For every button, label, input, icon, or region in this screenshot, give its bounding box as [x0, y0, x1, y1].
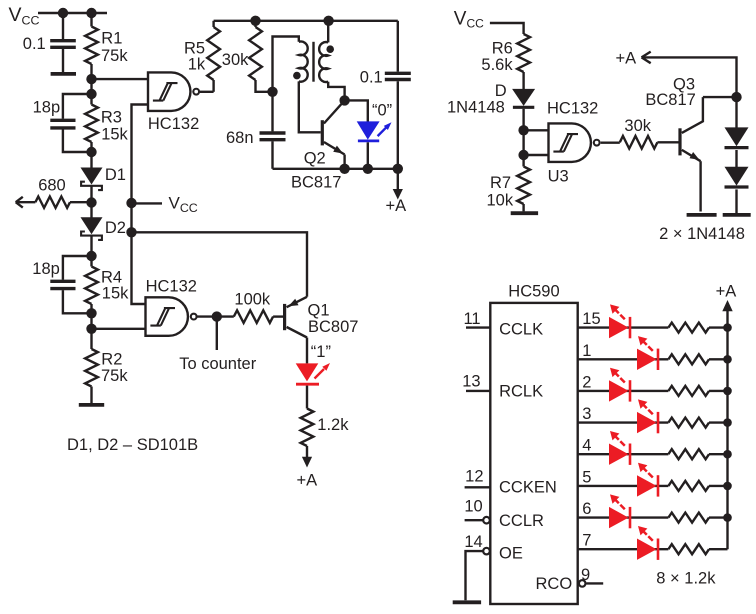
wire R2-gnd [90, 387, 92, 404]
value 10k [487, 191, 514, 209]
svg-text:1.2k: 1.2k [317, 416, 349, 434]
value label 30k osc [222, 51, 249, 69]
wire 100k to base [273, 315, 283, 317]
ground R7 [511, 211, 538, 215]
wire +A rail [726, 308, 728, 549]
diode clamp 2 [725, 167, 749, 187]
value label 680 [38, 177, 66, 195]
pin label 2 [582, 373, 591, 391]
node rail row 3 [723, 418, 732, 427]
value label 0.1 out [360, 69, 383, 87]
node gate2 input tap [86, 324, 96, 334]
pin 10 CCLR stub [465, 517, 490, 524]
svg-text:BC807: BC807 [308, 318, 358, 336]
pin label 7 [582, 532, 591, 550]
svg-text:1N4148: 1N4148 [447, 98, 505, 116]
wire Vcc rail [38, 12, 107, 14]
diode D2 Schottky [81, 217, 103, 240]
node 18p tap [86, 89, 96, 99]
svg-text:7: 7 [582, 532, 591, 550]
node LED0 rail [363, 164, 373, 174]
value label 18p lower [32, 260, 60, 278]
svg-text:+A: +A [297, 472, 318, 490]
svg-text:100k: 100k [234, 291, 271, 309]
pin name CCKEN [499, 479, 557, 497]
pin label 1 [582, 342, 591, 360]
wire +A feed [643, 57, 737, 97]
wire Vcc mid [132, 202, 163, 204]
svg-text:680: 680 [38, 177, 66, 195]
value label 0.1 [23, 35, 46, 53]
LED row 5 [637, 463, 658, 497]
svg-text:R6: R6 [492, 39, 513, 57]
wire 68n top [271, 92, 273, 132]
wire primary top [273, 37, 299, 92]
svg-text:D1: D1 [105, 166, 126, 184]
ground R2 [79, 403, 104, 407]
svg-text:0.1: 0.1 [360, 69, 383, 87]
svg-text:OE: OE [499, 545, 523, 563]
wire C3 bottom [63, 290, 92, 313]
wire D to R7 [522, 109, 524, 167]
label HC132 B [146, 278, 197, 296]
svg-text:9: 9 [581, 566, 590, 584]
svg-text:R5: R5 [184, 39, 205, 57]
pin 13 RCLK stub [466, 390, 490, 392]
wire R4-R2 [90, 304, 92, 349]
label R3 [101, 109, 122, 127]
svg-text:To counter: To counter [179, 355, 257, 373]
wire R6-D [522, 72, 524, 89]
wire U3 in B [524, 154, 549, 156]
wire 30k to Q3 base [657, 141, 678, 143]
label R4 [101, 268, 122, 286]
svg-text:2: 2 [582, 373, 591, 391]
LED D-0 blue [357, 121, 392, 140]
node rail row 6 [723, 513, 732, 522]
value 15k lower [102, 285, 129, 303]
value 15k [101, 126, 128, 144]
LED D-1 red [296, 363, 330, 384]
svg-text:+A: +A [716, 283, 737, 301]
node Vcc-C1 [58, 8, 68, 18]
pin name RCLK [499, 382, 543, 400]
label R7 [490, 174, 511, 192]
op-amp gate HC132 A [148, 72, 199, 111]
resistor row 7 [668, 544, 709, 554]
pin 6 wire [578, 516, 728, 518]
wire LED1 to R [306, 386, 308, 409]
diode D1 Schottky [81, 168, 103, 191]
label BC817 Q2 [291, 174, 341, 192]
label Q1 [308, 301, 330, 319]
resistor R2 [85, 349, 98, 387]
label R2 [101, 351, 122, 369]
svg-text:RCLK: RCLK [499, 382, 543, 400]
ground Q3 emitter [687, 213, 717, 217]
pin label 3 [582, 405, 591, 423]
label HC132 A [148, 115, 199, 133]
wire Vcc right [490, 23, 524, 34]
resistor R5 [207, 21, 220, 92]
pin label 13 [462, 373, 480, 391]
LED row 3 [637, 399, 658, 433]
wire to diode1 [735, 97, 737, 128]
svg-text:15k: 15k [101, 126, 128, 144]
value 1k [188, 56, 206, 74]
svg-text:Q1: Q1 [308, 301, 330, 319]
svg-text:CCKEN: CCKEN [499, 479, 557, 497]
node R3-D1 junction [86, 147, 96, 157]
svg-text:15k: 15k [102, 285, 129, 303]
svg-text:RCO: RCO [536, 575, 573, 593]
op-amp gate HC132 B [146, 297, 197, 336]
ground OE [453, 600, 481, 604]
svg-text:6: 6 [582, 500, 591, 518]
wire primary to Q2 base [299, 81, 321, 132]
svg-text:18p: 18p [32, 260, 60, 278]
svg-text:R4: R4 [101, 268, 122, 286]
node D2 branch [126, 227, 136, 237]
value 2x1N4148 [659, 225, 745, 243]
wire counter stub [216, 317, 218, 350]
pin 7 wire [578, 548, 728, 550]
svg-text:Q2: Q2 [304, 150, 326, 168]
pin 11 CCLK stub [466, 326, 490, 328]
svg-text:HC132: HC132 [146, 278, 197, 296]
ground C1 [51, 72, 76, 76]
svg-text:“0”: “0” [372, 102, 392, 120]
svg-text:4: 4 [582, 437, 591, 455]
note D1 D2 type [67, 436, 198, 454]
pin 14 OE stub [466, 548, 490, 601]
svg-text:HC132: HC132 [547, 100, 598, 118]
LED row 2 [609, 368, 630, 402]
wire gate1 output [200, 91, 214, 93]
op-amp gate HC132 U3 [549, 123, 600, 161]
resistor row 1 [668, 354, 709, 364]
node top rail T1 [323, 16, 333, 26]
resistor row 5 [668, 481, 709, 491]
resistor 1.2k [301, 409, 314, 447]
node Vcc-R1 [86, 8, 96, 18]
pin label 10 [464, 498, 482, 516]
pin name CCLK [499, 320, 543, 338]
pin label 5 [582, 468, 591, 486]
svg-text:CCLR: CCLR [499, 512, 544, 530]
svg-text:11: 11 [463, 310, 480, 328]
LED row 4 [609, 431, 630, 465]
transformer T1 secondary [319, 21, 344, 101]
pin name CCLR [499, 512, 544, 530]
LED row 15 [609, 304, 630, 338]
svg-text:8 × 1.2k: 8 × 1.2k [656, 569, 716, 587]
IC U-HC590 body [490, 303, 577, 604]
arrow +A rail [722, 300, 732, 311]
svg-text:18p: 18p [33, 98, 61, 116]
transistor Q3 [680, 97, 703, 211]
node rail row 2 [723, 387, 732, 396]
resistor 30k osc [249, 21, 272, 92]
ground diode string [723, 213, 751, 217]
svg-text:3: 3 [582, 405, 591, 423]
wire C1 top lead [62, 13, 64, 39]
node counter tap [212, 311, 222, 321]
wire D2-R4 [90, 236, 92, 267]
wire R1 top lead [90, 13, 92, 27]
value 1N4148 [447, 98, 505, 116]
node Q2 collector junction [339, 95, 349, 105]
svg-text:D: D [495, 82, 507, 100]
svg-text:30k: 30k [624, 117, 651, 135]
label +A rail [716, 283, 737, 301]
arrow +A out [393, 169, 403, 200]
svg-text:1k: 1k [188, 56, 206, 74]
node rail row 4 [723, 450, 732, 459]
svg-text:0.1: 0.1 [23, 35, 46, 53]
node diode string top [731, 92, 741, 102]
pin label 14 [464, 533, 482, 551]
pin 5 wire [578, 485, 728, 487]
svg-text:BC817: BC817 [291, 174, 341, 192]
LED row 6 [609, 494, 630, 528]
node Q2 emitter rail [339, 164, 349, 174]
label Q3 [673, 76, 695, 94]
value 5.6k [481, 56, 513, 74]
resistor 100k [234, 310, 273, 323]
label R1 [101, 30, 122, 48]
pin label 6 [582, 500, 591, 518]
svg-text:5: 5 [582, 468, 591, 486]
wire top rail [214, 20, 398, 22]
pin 12 CCKEN stub [465, 486, 491, 488]
arrow to supply (680) [16, 197, 36, 208]
value 75k [101, 47, 128, 65]
label HC590 [508, 282, 559, 300]
pin label 11 [463, 310, 480, 328]
wire C2 bottom [63, 129, 92, 152]
wire R7 gnd [522, 204, 524, 211]
wire U3 in A [524, 129, 549, 131]
resistor row 6 [668, 513, 709, 523]
label D [495, 82, 507, 100]
wire gate2 output [197, 315, 234, 317]
label U3 [548, 167, 569, 185]
svg-text:10k: 10k [487, 191, 514, 209]
label HC132 U3 [547, 100, 598, 118]
node D2-R4 junction [86, 251, 96, 261]
svg-text:30k: 30k [222, 51, 249, 69]
resistor row 3 [668, 418, 709, 428]
wire R1-R3 [90, 64, 92, 105]
label R5 [184, 39, 205, 57]
svg-text:+A: +A [616, 50, 637, 68]
wire C3 top [63, 256, 92, 280]
capacitor 0.1 bypass [50, 41, 76, 48]
svg-text:+A: +A [386, 197, 407, 215]
pin label 15 [582, 310, 600, 328]
svg-text:CCLK: CCLK [499, 320, 543, 338]
svg-text:12: 12 [465, 468, 483, 486]
pin 1 wire [578, 358, 728, 360]
label +A out [386, 197, 407, 215]
arrow +A feed head [642, 52, 651, 64]
wire bottom rail [273, 168, 398, 170]
pin label 4 [582, 437, 591, 455]
label R6 [492, 39, 513, 57]
diode D 1N4148 [512, 89, 535, 107]
node rail +A [393, 164, 403, 174]
pin 2 wire [578, 390, 728, 392]
node rail row 1 [723, 355, 732, 364]
node R1-R3 junction [86, 74, 96, 84]
wire gate1 input B vertical [132, 105, 150, 305]
wire diode2 gnd [735, 189, 737, 213]
pin name OE [499, 545, 523, 563]
resistor row 15 [668, 323, 709, 333]
wire to gate1 input A [92, 78, 150, 80]
resistor R6 [517, 34, 530, 72]
svg-text:BC817: BC817 [645, 91, 695, 109]
svg-text:5.6k: 5.6k [481, 56, 513, 74]
pin label 9 [581, 566, 590, 584]
capacitor 18p upper [50, 120, 75, 128]
resistor row 2 [668, 386, 709, 396]
svg-text:U3: U3 [548, 167, 569, 185]
capacitor 18p lower [50, 281, 75, 288]
label To counter [179, 355, 257, 373]
svg-text:R7: R7 [490, 174, 511, 192]
svg-text:HC590: HC590 [508, 282, 559, 300]
value label 68n [226, 129, 254, 147]
transformer T1 primary [293, 42, 308, 82]
wire LED0 bottom [367, 142, 369, 169]
wire C2 top [63, 94, 92, 119]
LED row 7 [637, 526, 658, 560]
svg-text:1: 1 [582, 342, 591, 360]
svg-text:R3: R3 [101, 109, 122, 127]
value label 1.2k [317, 416, 349, 434]
node U3 input B [518, 150, 528, 160]
pin 3 wire [578, 421, 728, 423]
wire D1-D2 [90, 186, 92, 218]
power label Vcc [9, 4, 40, 27]
power label Vcc right [454, 9, 484, 31]
wire right rail top [397, 21, 399, 72]
node R4-C3 junction [86, 308, 96, 318]
value label 100k [234, 291, 271, 309]
svg-text:75k: 75k [101, 47, 128, 65]
capacitor 68n [260, 133, 286, 140]
LED row 1 [637, 336, 658, 370]
svg-text:D1, D2 – SD101B: D1, D2 – SD101B [67, 436, 198, 454]
value 8x1.2k [656, 569, 716, 587]
node 68n junction [267, 87, 277, 97]
label BC817 Q3 [645, 91, 695, 109]
label Q2 [304, 150, 326, 168]
label +A bottom [297, 472, 318, 490]
resistor R4 [85, 267, 98, 305]
pin 9 RCO stub [579, 580, 603, 587]
wire diode1-2 [735, 150, 737, 167]
svg-text:R1: R1 [101, 30, 122, 48]
svg-text:14: 14 [464, 533, 482, 551]
pin 4 wire [578, 453, 728, 455]
resistor row 4 [668, 449, 709, 459]
value label 30k U3 [624, 117, 651, 135]
svg-text:75k: 75k [101, 367, 128, 385]
node rail row 5 [723, 482, 732, 491]
node top rail R5 [250, 16, 260, 26]
value 75k lower [101, 367, 128, 385]
transistor Q1 [285, 297, 307, 364]
label "1" [311, 343, 331, 361]
resistor R3 [85, 105, 98, 143]
pin 15 wire [578, 326, 728, 328]
wire LED0 top [345, 100, 368, 121]
label +A feed [616, 50, 637, 68]
node Vcc mid tap [126, 198, 136, 208]
wire 68n bottom [271, 141, 273, 169]
label D1 [105, 166, 126, 184]
wire D2 branch to Q1 [132, 232, 308, 296]
label BC807 [308, 318, 358, 336]
node U3 input A [518, 125, 528, 135]
diode clamp 1 [725, 127, 749, 147]
pin label 12 [465, 468, 483, 486]
resistor 30k U3 [620, 136, 658, 149]
wire to gate2 input B [92, 328, 147, 330]
capacitor 0.1 out [385, 73, 411, 79]
svg-text:HC132: HC132 [148, 115, 199, 133]
svg-text:“1”: “1” [311, 343, 331, 361]
wire C1 bottom lead [62, 49, 64, 72]
power label Vcc mid [169, 194, 198, 215]
resistor 680 [35, 197, 91, 208]
resistor R7 [517, 167, 530, 205]
svg-text:68n: 68n [226, 129, 254, 147]
wire Q3 collector [703, 96, 737, 98]
transistor Q2 [322, 100, 344, 168]
node rail row 15 [723, 323, 732, 332]
label D2 [105, 219, 126, 237]
wire U3 output [601, 141, 620, 143]
resistor R1 [85, 27, 98, 65]
svg-text:D2: D2 [105, 219, 126, 237]
svg-text:2 × 1N4148: 2 × 1N4148 [659, 225, 745, 243]
transformer T1 core [312, 42, 314, 82]
node 680 tap [86, 197, 96, 207]
wire right rail bottom [397, 81, 399, 169]
value label 18p [33, 98, 61, 116]
svg-text:10: 10 [464, 498, 482, 516]
label "0" [372, 102, 392, 120]
arrow +A bottom [302, 446, 312, 468]
svg-text:15: 15 [582, 310, 600, 328]
svg-text:13: 13 [462, 373, 480, 391]
wire R3-D1 [90, 142, 92, 168]
pin name RCO [536, 575, 573, 593]
